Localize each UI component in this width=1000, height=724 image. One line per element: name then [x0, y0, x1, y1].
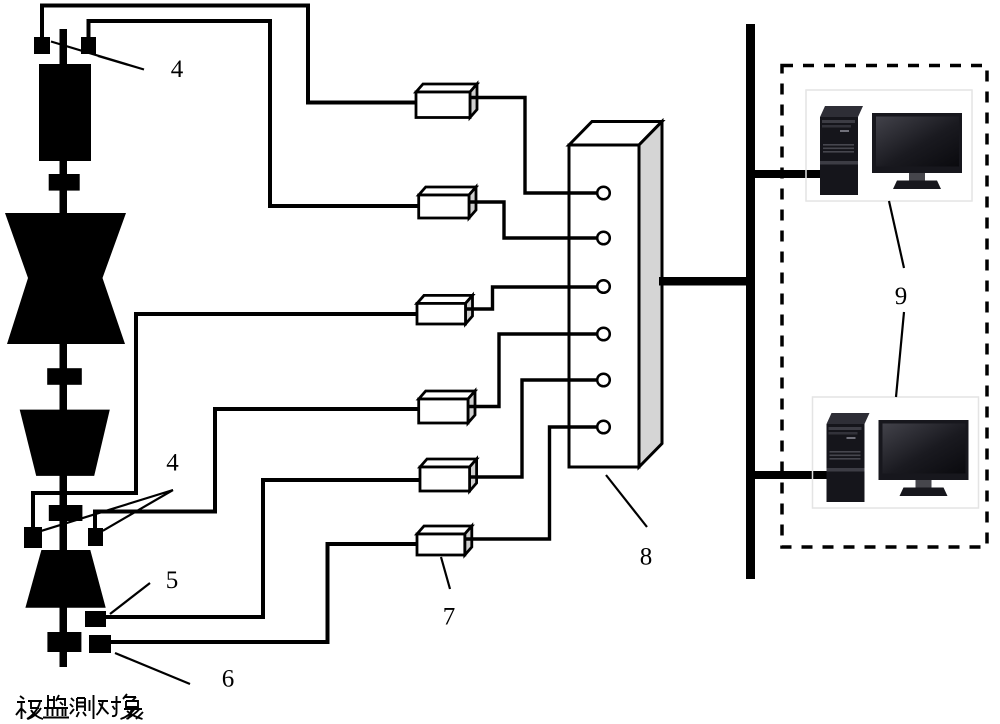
svg-text:5: 5 [166, 567, 179, 594]
wire W3 conditioner 3 to port 3 [466, 287, 597, 309]
signal conditioner box 6 [417, 526, 472, 555]
leader lines label 4 lower [42, 490, 173, 531]
leader lines label 4 top [51, 42, 144, 70]
coupling 2 [47, 368, 82, 385]
machine body trapezoid 2 [25, 550, 105, 608]
sensor 4 top-left [34, 37, 50, 54]
machine body trapezoid 1 [20, 410, 110, 476]
acquisition unit 8 top face [569, 122, 662, 146]
leader line label 6 [115, 653, 190, 684]
port circle 5 [597, 374, 610, 387]
thick link unit 8 to bus [659, 277, 746, 286]
computer workstation 1 [806, 90, 972, 201]
svg-text:4: 4 [166, 450, 179, 477]
machine body rectangle [39, 64, 91, 161]
svg-text:8: 8 [640, 544, 653, 571]
caption 被监测对象 [16, 694, 143, 719]
dashed enclosure [782, 66, 987, 548]
wire W5 conditioner 5 to port 5 [470, 380, 597, 477]
coupling 4 [47, 632, 81, 652]
sensor 4 lower-left [24, 527, 42, 548]
leader line label 9 lower [896, 312, 904, 397]
signal conditioner box 5 [420, 459, 477, 491]
wire W3 sensor to conditioner 3 [33, 314, 417, 528]
wire W2 conditioner 2 to port 2 [469, 202, 597, 238]
svg-text:4: 4 [171, 56, 184, 83]
wire W1 conditioner 1 to port 1 [470, 98, 597, 194]
wire W6 conditioner 6 to port 6 [465, 427, 597, 539]
thick link bus to computer 1 [755, 170, 822, 178]
sensor 5 [85, 611, 106, 627]
leader line label 7 [441, 557, 450, 589]
wire W1 sensor to conditioner 1 [42, 6, 416, 103]
svg-text:6: 6 [222, 666, 235, 693]
leader line label 9 upper [889, 201, 904, 268]
shaft of monitored machine train [60, 29, 68, 667]
svg-text:7: 7 [443, 604, 456, 631]
coupling 3 [49, 505, 83, 521]
signal conditioner box 1 [416, 84, 477, 118]
network bus [746, 24, 755, 579]
machine body bowtie [5, 213, 126, 344]
signal conditioner box 4 [419, 391, 475, 423]
wire W6 sensor 6 to conditioner 6 [111, 544, 417, 642]
wire W4 conditioner 4 to port 4 [468, 334, 597, 407]
sensor 4 top-right [81, 37, 96, 54]
signal conditioner box 3 [417, 295, 473, 324]
sensor 6 [89, 635, 111, 653]
port circle 3 [597, 280, 610, 293]
wire W2 sensor to conditioner 2 [89, 21, 419, 206]
wire W5 sensor 5 to conditioner 5 [106, 480, 420, 617]
coupling 1 [49, 174, 80, 191]
signal conditioner box 2 [419, 187, 476, 218]
port circle 1 [597, 187, 610, 200]
svg-text:9: 9 [895, 283, 908, 310]
port circle 2 [597, 232, 610, 245]
leader line label 5 [110, 583, 150, 614]
leader line label 8 [606, 475, 647, 527]
acquisition unit 8 right face [639, 122, 662, 468]
port circle 6 [597, 421, 610, 434]
computer workstation 2 [813, 397, 979, 508]
wire W4 sensor to conditioner 4 [95, 409, 418, 529]
port circle 4 [597, 328, 610, 341]
sensor 4 lower-right [88, 528, 103, 546]
thick link bus to computer 2 [755, 471, 827, 479]
acquisition unit 8 front face [569, 145, 639, 467]
